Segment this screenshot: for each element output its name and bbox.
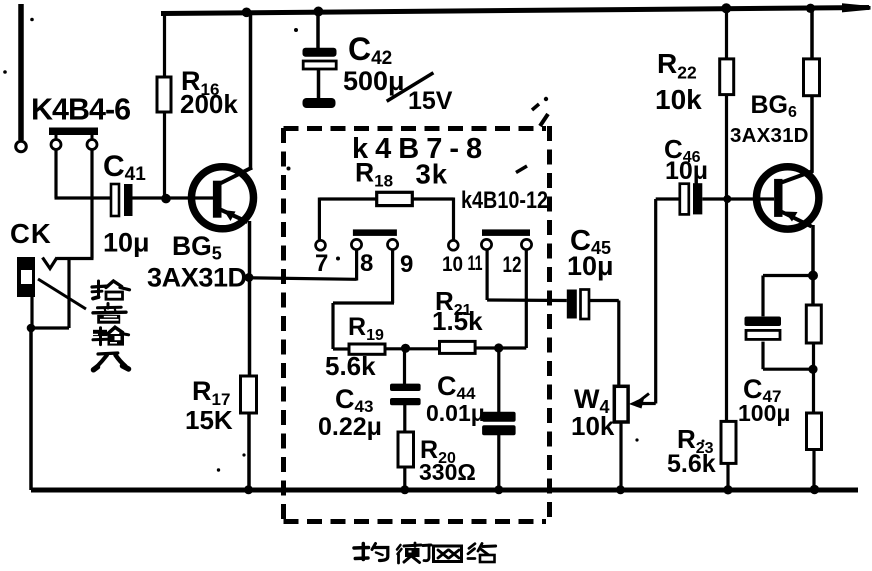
svg-text:3k: 3k — [416, 159, 449, 190]
svg-text:11: 11 — [468, 251, 483, 275]
svg-text:CK: CK — [10, 218, 52, 249]
svg-text:8: 8 — [360, 250, 373, 277]
svg-text:12: 12 — [503, 252, 522, 277]
svg-text:10k: 10k — [655, 84, 702, 115]
svg-text:3AX31D: 3AX31D — [730, 124, 809, 147]
svg-text:7: 7 — [315, 250, 328, 277]
svg-text:0.22μ: 0.22μ — [318, 413, 382, 441]
svg-text:15V: 15V — [408, 87, 453, 115]
svg-text:500μ: 500μ — [343, 66, 405, 96]
svg-text:3AX31D: 3AX31D — [147, 263, 247, 293]
svg-text:0.01μ: 0.01μ — [426, 400, 485, 426]
svg-text:10μ: 10μ — [103, 228, 150, 258]
svg-text:K4B4-6: K4B4-6 — [31, 93, 130, 127]
svg-text:k4B10-12: k4B10-12 — [461, 187, 548, 214]
svg-text:1.5k: 1.5k — [432, 306, 483, 336]
svg-text:200k: 200k — [180, 89, 238, 119]
svg-text:5.6k: 5.6k — [325, 351, 376, 381]
svg-text:9: 9 — [400, 251, 413, 278]
svg-text:10k: 10k — [571, 411, 615, 441]
svg-text:15K: 15K — [185, 405, 233, 435]
svg-text:10: 10 — [442, 252, 463, 276]
svg-text:100μ: 100μ — [738, 400, 790, 426]
svg-text:10μ: 10μ — [665, 157, 708, 185]
svg-text:330Ω: 330Ω — [419, 459, 476, 485]
svg-text:10μ: 10μ — [567, 251, 614, 281]
svg-text:5.6k: 5.6k — [667, 450, 716, 478]
